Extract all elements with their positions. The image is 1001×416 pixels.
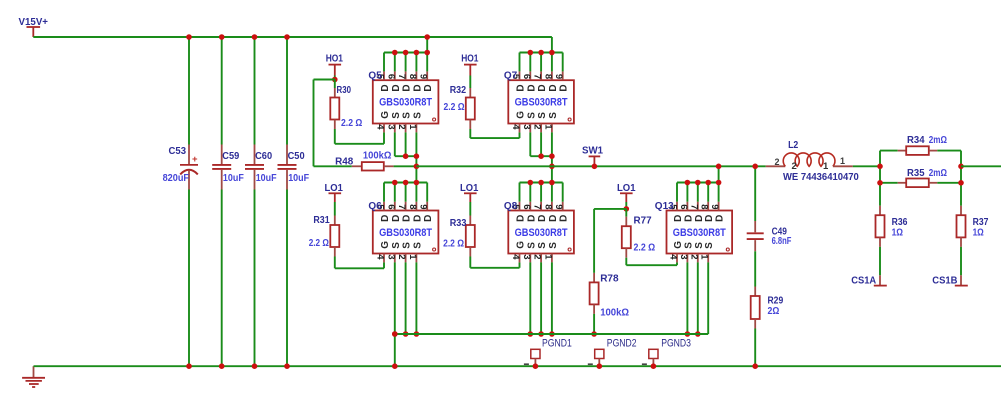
svg-text:C53: C53 [169,145,187,157]
capacitor C50 (10uF) [278,145,310,190]
net flag HO1 (left) [326,53,343,76]
svg-text:Q8: Q8 [504,201,518,212]
svg-text:GBS030R8T: GBS030R8T [515,227,568,239]
svg-text:8: 8 [407,204,418,209]
node ground rail junction [219,363,225,369]
node SW junction at R48 [414,164,420,170]
svg-text:6: 6 [521,204,532,209]
svg-text:10uF: 10uF [223,172,244,184]
svg-text:PGND3: PGND3 [661,337,691,349]
wire R33 to Q8 gate [469,257,471,268]
wire SW1 down to Q13 bus [718,166,720,182]
capacitor C49 6.8nF [747,166,792,251]
svg-text:D: D [548,84,559,91]
inductor L2 WE 74436410470 [766,139,859,183]
svg-text:S: S [526,242,537,249]
svg-text:2: 2 [688,254,699,259]
wire R77 to Q13 gate [625,258,627,266]
wire cap top [286,37,288,145]
svg-text:R34: R34 [907,134,925,146]
ground symbol [22,366,45,387]
node PGND1 junction [533,363,539,369]
svg-text:6: 6 [678,204,689,209]
node pgnd bus left junction [392,331,398,337]
svg-text:R30: R30 [337,84,352,96]
wire Q6 sources to pgnd bus [395,262,417,334]
svg-text:D: D [412,215,423,222]
net flag LO1 (right) [617,182,636,202]
svg-text:Q6: Q6 [368,201,382,212]
svg-text:R32: R32 [450,84,467,96]
svg-text:7: 7 [688,204,699,209]
wire cap bottom [188,190,190,367]
node R29 ground junction [752,363,758,369]
svg-text:6.8nF: 6.8nF [772,235,792,247]
svg-text:D: D [559,215,570,222]
svg-text:R78: R78 [600,273,619,285]
svg-text:3: 3 [521,254,532,259]
port CS1A [851,274,887,286]
svg-text:D: D [516,84,527,91]
svg-text:100kΩ: 100kΩ [363,149,392,161]
wire cap bottom [221,190,223,367]
wire cap top [188,37,190,145]
svg-text:9: 9 [418,74,429,79]
svg-text:GBS030R8T: GBS030R8T [673,227,726,239]
svg-text:D: D [526,215,537,222]
svg-text:D: D [537,84,548,91]
svg-text:3: 3 [678,254,689,259]
port PGND1 [524,337,572,366]
svg-text:D: D [694,215,705,222]
svg-text:7: 7 [396,74,407,79]
resistor R33 2.2 Ohm [443,202,475,257]
svg-text:6: 6 [385,74,396,79]
svg-text:G: G [516,111,527,119]
wire sense block left vertical [879,151,881,206]
capacitor C53 (polarized 820uF) [163,145,198,190]
svg-text:6: 6 [521,74,532,79]
wire R30 to Q5 gate [334,129,336,144]
svg-text:2: 2 [792,161,797,172]
wire top rail down to Q7 bus [551,37,553,53]
svg-text:G: G [673,241,684,249]
svg-text:1: 1 [699,254,710,260]
svg-text:9: 9 [418,204,429,209]
svg-text:PGND2: PGND2 [607,337,637,349]
svg-text:S: S [391,112,402,119]
net flag LO1 (left) [325,182,343,202]
transistor Q8 (GBS030R8T) [504,201,574,263]
node Q6 source bus junctions [392,331,398,337]
svg-text:2: 2 [532,254,543,259]
node ground rail junction [186,363,192,369]
svg-text:4: 4 [375,254,386,260]
svg-text:Q5: Q5 [368,71,382,82]
svg-text:9: 9 [553,74,564,79]
svg-text:D: D [423,84,434,91]
node R78 bus junction [591,331,597,337]
svg-text:CS1A: CS1A [851,274,876,286]
node Q7 bus junctions [528,50,534,56]
net flag LO1 (middle) [460,182,478,202]
svg-text:G: G [380,241,391,249]
svg-text:1Ω: 1Ω [892,226,903,238]
svg-text:2: 2 [396,254,407,259]
svg-text:S: S [391,242,402,249]
wire HO1 branch left [314,79,335,81]
node Q5 bus junctions [392,50,398,56]
svg-text:3: 3 [385,124,396,129]
node sense block junctions [877,164,883,170]
wire pgnd bus to ground rail [394,334,396,366]
svg-text:D: D [516,215,527,222]
svg-text:+: + [192,154,198,165]
wire output to right edge [961,165,1001,167]
svg-text:D: D [704,215,715,222]
svg-text:S: S [526,112,537,119]
svg-text:1Ω: 1Ω [973,226,984,238]
svg-text:D: D [548,215,559,222]
node top rail junction [284,34,290,40]
svg-text:S: S [402,112,413,119]
svg-text:9: 9 [553,204,564,209]
svg-text:G: G [516,241,527,249]
svg-text:D: D [423,215,434,222]
svg-text:D: D [537,215,548,222]
svg-text:S: S [412,242,423,249]
svg-text:8: 8 [699,204,710,209]
resistor R35 2mOhm [880,167,961,187]
svg-text:D: D [526,84,537,91]
svg-text:GBS030R8T: GBS030R8T [379,227,432,239]
svg-text:8: 8 [542,74,553,79]
transistor Q7 (GBS030R8T) [504,71,574,133]
svg-text:S: S [412,112,423,119]
transistor Q6 (GBS030R8T) [368,201,438,263]
svg-text:G: G [380,111,391,119]
svg-text:HO1: HO1 [326,53,343,65]
svg-text:C60: C60 [255,150,272,162]
svg-text:2: 2 [775,157,780,167]
svg-text:7: 7 [532,204,543,209]
wire R37 to CS1B [960,247,962,275]
svg-text:S: S [402,242,413,249]
wire LO1 stub to junction [625,202,627,209]
wire R31 to Q6 gate [334,257,336,269]
svg-text:7: 7 [396,204,407,209]
svg-text:1: 1 [840,156,845,166]
net flag HO1 (right) [461,53,478,76]
svg-text:10uF: 10uF [256,172,277,184]
svg-text:LO1: LO1 [617,182,636,194]
svg-text:D: D [715,215,726,222]
resistor R37 1 Ohm [957,206,989,247]
wire sense block right vertical [960,151,962,206]
svg-text:1: 1 [542,124,553,130]
node PGND2 junction [597,363,603,369]
wire R48 to SW node [394,165,417,167]
wire Q7 drain bus [520,53,563,72]
svg-text:D: D [391,84,402,91]
svg-text:4: 4 [375,124,386,130]
svg-text:S: S [704,242,715,249]
svg-text:7: 7 [532,74,543,79]
transistor Q5 (GBS030R8T) [368,71,438,133]
node PGND3 junction [651,363,657,369]
svg-text:CS1B: CS1B [932,274,958,286]
wire cap bottom [254,190,256,367]
wire R36 to CS1A [879,247,881,275]
svg-text:LO1: LO1 [460,182,478,194]
svg-text:4: 4 [510,254,521,260]
node Q8 source bus junctions [528,331,534,337]
port PGND3 [642,337,691,366]
svg-text:8: 8 [407,74,418,79]
wire HO1 stub to junction [334,76,336,80]
wire R32 to Q7 gate [469,129,471,138]
svg-text:C59: C59 [222,150,239,162]
node ground rail junction [252,363,258,369]
node Q7 source junctions [538,153,544,159]
node Q8 drain bus junctions [528,180,534,186]
wire Q5 source join [395,132,417,182]
node SW1 flag junction [592,164,598,170]
transistor Q13 (GBS030R8T) [655,201,732,263]
resistor R29 2 Ohm [751,251,784,328]
wire LO1 junction to R78 [594,208,626,210]
svg-text:2.2 Ω: 2.2 Ω [634,241,656,253]
wire cap top [221,37,223,145]
svg-text:D: D [412,84,423,91]
svg-text:S: S [548,112,559,119]
svg-text:Q7: Q7 [504,71,518,82]
node HO1 junction [332,77,338,83]
resistor R32 2.2 Ohm [444,76,475,130]
power flag V15V+ [19,16,49,37]
svg-text:S: S [694,242,705,249]
wire L2 to sense block [853,165,880,167]
svg-text:S: S [548,242,559,249]
svg-text:4: 4 [510,124,521,130]
svg-text:D: D [380,215,391,222]
svg-text:SW1: SW1 [582,145,603,157]
node SW1 at Q13 [716,164,722,170]
resistor R78 100k [590,209,630,319]
svg-text:D: D [559,84,570,91]
svg-text:D: D [402,215,413,222]
svg-text:1: 1 [542,254,553,260]
resistor R77 2.2 Ohm [622,209,655,258]
svg-text:R77: R77 [634,214,652,226]
wire Q5 drain bus [384,53,427,72]
svg-text:S: S [537,112,548,119]
svg-text:9: 9 [709,204,720,209]
resistor R34 2mOhm [880,134,961,155]
wire top V15V+ rail [33,36,552,38]
wire cap bottom [286,190,288,367]
svg-text:WE 74436410470: WE 74436410470 [783,171,859,183]
svg-text:R33: R33 [450,217,467,229]
node SW junction at Q7 [549,164,555,170]
svg-text:3: 3 [385,254,396,259]
svg-text:2mΩ: 2mΩ [929,134,947,146]
resistor R36 1 Ohm [876,206,908,247]
svg-text:D: D [380,84,391,91]
node ground rail junction [284,363,290,369]
node top rail to Q5 [424,34,430,40]
svg-text:D: D [391,215,402,222]
svg-text:Q13: Q13 [655,201,674,212]
svg-text:R35: R35 [907,167,925,179]
wire Q8 sources to pgnd bus [530,262,552,334]
svg-text:R31: R31 [313,214,329,226]
svg-text:100kΩ: 100kΩ [600,307,629,319]
svg-text:2.2 Ω: 2.2 Ω [309,237,329,249]
wire cap top [254,37,256,145]
svg-text:D: D [673,215,684,222]
svg-text:LO1: LO1 [325,182,343,194]
node ground rail junction [392,363,398,369]
svg-text:6: 6 [385,204,396,209]
port PGND2 [588,337,637,366]
svg-text:C50: C50 [288,150,305,162]
svg-text:4: 4 [668,254,679,260]
svg-text:8: 8 [542,204,553,209]
svg-text:2.2 Ω: 2.2 Ω [341,117,362,129]
node Q13 source junctions [685,331,691,337]
capacitor C59 (10uF) [212,145,244,190]
svg-text:2Ω: 2Ω [768,305,780,317]
wire Q8 drain bus [520,183,563,202]
wire R29 to ground rail [754,329,756,367]
wire top rail to Q5 bus [426,37,428,53]
svg-text:3: 3 [521,124,532,129]
port CS1B [932,274,968,286]
node Q13 drain bus junctions [685,180,691,186]
svg-text:1: 1 [407,254,418,260]
svg-text:R48: R48 [335,155,353,167]
wire Q13 drain bus [677,183,719,202]
wire R78 to pgnd bus [593,314,595,334]
wire SW1 node line [416,165,765,167]
svg-text:2.2 Ω: 2.2 Ω [444,101,465,113]
wire pgnd source bus [395,333,708,335]
svg-text:820uF: 820uF [163,172,190,184]
node LO1 junction [624,206,630,212]
node Q5 source junctions [403,153,409,159]
svg-text:GBS030R8T: GBS030R8T [379,97,432,109]
svg-text:S: S [537,242,548,249]
svg-text:PGND1: PGND1 [542,337,572,349]
wire Q13 sources to pgnd bus [687,262,708,334]
svg-text:GBS030R8T: GBS030R8T [515,97,568,109]
svg-text:2.2 Ω: 2.2 Ω [443,237,464,249]
wire ground rail [34,365,1001,367]
svg-text:1: 1 [407,124,418,130]
svg-text:L2: L2 [788,139,798,151]
node top rail junction [186,34,192,40]
svg-text:2: 2 [532,124,543,129]
svg-text:HO1: HO1 [461,53,478,65]
node top rail junction [219,34,225,40]
svg-text:10uF: 10uF [288,172,309,184]
node Q6 drain bus junctions [392,180,398,186]
net flag SW1 [582,145,603,167]
wire down to R48 [313,80,315,167]
node top rail junction [252,34,258,40]
node SW1 at C49 [752,164,758,170]
svg-text:1: 1 [823,161,829,172]
wire Q7 source join [530,132,552,182]
capacitor C60 (10uF) [245,145,277,190]
svg-text:D: D [683,215,694,222]
resistor R48 100k [314,149,394,170]
svg-text:2: 2 [396,124,407,129]
svg-text:D: D [402,84,413,91]
wire Q6 drain bus [384,183,427,202]
resistor R31 2.2 Ohm [309,202,340,257]
svg-text:S: S [683,242,694,249]
resistor R30 2.2 Ohm [330,80,362,130]
svg-text:2mΩ: 2mΩ [929,167,947,179]
